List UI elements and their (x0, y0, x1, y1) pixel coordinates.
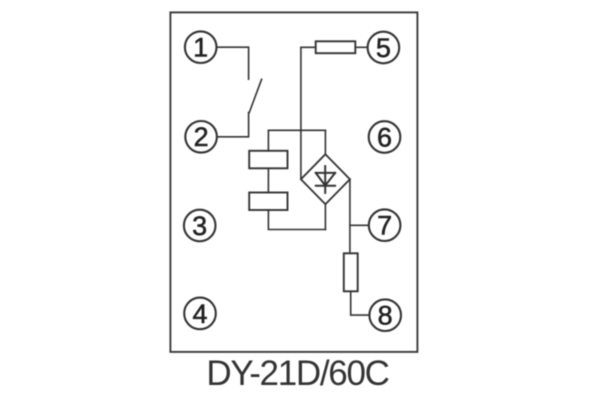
wire R2 to terminal8 (351, 291, 370, 315)
wire coil branch top (268, 130, 325, 151)
terminal 3 (184, 210, 216, 242)
wire tap to terminal7 (350, 224, 369, 226)
rectifier diode symbol (316, 166, 335, 193)
terminal 1 (185, 31, 217, 63)
svg-text:8: 8 (378, 301, 393, 331)
terminal 2 (185, 121, 217, 153)
wire bridge top lead (324, 130, 326, 154)
wire switch to terminal2 (217, 113, 249, 137)
model label DY-21D/60C (0, 354, 595, 394)
resistor R1 (316, 41, 356, 53)
terminal 7 (369, 209, 401, 241)
rectifier bridge U1 diamond (301, 154, 350, 204)
resistor R2 (344, 253, 358, 291)
svg-text:6: 6 (377, 122, 392, 152)
svg-text:7: 7 (377, 211, 392, 241)
terminal 4 (184, 298, 216, 330)
svg-text:3: 3 (192, 211, 207, 241)
terminal 6 (369, 121, 401, 153)
terminal 5 (368, 32, 400, 64)
svg-text:1: 1 (193, 33, 208, 63)
svg-text:2: 2 (194, 122, 209, 152)
coil winding L1 (249, 151, 287, 169)
wire R1 right lead to terminal5 (355, 46, 367, 48)
svg-text:4: 4 (192, 299, 207, 329)
relay case outline (170, 12, 417, 352)
wire between coil windings (267, 168, 269, 192)
wire bridge bottom lead (324, 204, 326, 230)
wire R1 left lead down to bridge left node (301, 47, 316, 179)
coil winding L2 (249, 193, 287, 211)
wire terminal1 to switch (217, 47, 249, 79)
terminal 8 (369, 299, 401, 331)
wire bridge right node down (349, 179, 351, 253)
svg-text:5: 5 (376, 33, 391, 63)
switch blade K (249, 79, 261, 112)
wire coil branch bottom (268, 210, 325, 230)
